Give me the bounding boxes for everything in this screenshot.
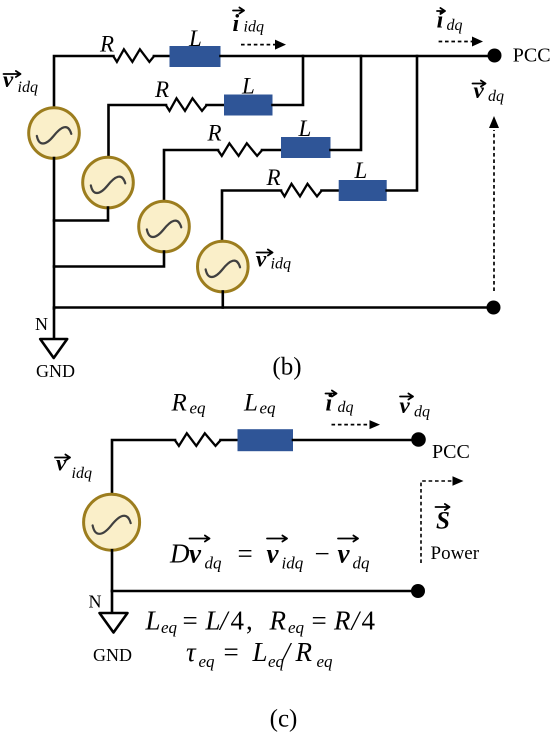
svg-text:L: L: [188, 26, 202, 51]
svg-text:idq: idq: [282, 554, 304, 573]
wire branch4 left: [222, 191, 281, 242]
label v_dq (c): [400, 393, 431, 421]
svg-text:v: v: [3, 67, 14, 92]
ground GND (b): [40, 339, 67, 358]
svg-text:v: v: [400, 393, 411, 418]
svg-text:4: 4: [362, 606, 376, 636]
svg-text:dq: dq: [353, 554, 371, 573]
svg-text:idq: idq: [18, 79, 38, 96]
svg-text:/: /: [218, 606, 230, 636]
svg-text:dq: dq: [205, 554, 223, 573]
svg-text:R: R: [333, 606, 351, 636]
svg-text:R: R: [99, 31, 114, 56]
svg-text:D: D: [169, 539, 190, 569]
label Req: [171, 390, 207, 418]
svg-text:−: −: [315, 539, 330, 569]
svg-text:idq: idq: [72, 465, 92, 482]
svg-text:eq: eq: [317, 652, 334, 671]
svg-text:i: i: [326, 391, 333, 417]
svg-text:S: S: [436, 508, 450, 535]
wire Req to Leq: [221, 439, 238, 442]
label v_idq (c): [55, 451, 92, 483]
wire V1 bottom to N rail: [53, 158, 56, 309]
svg-text:PCC: PCC: [432, 441, 470, 463]
resistor R2: [166, 98, 207, 111]
svg-text:GND: GND: [93, 645, 132, 665]
svg-text:i: i: [437, 8, 444, 34]
svg-text:R: R: [154, 77, 169, 102]
resistor R3: [218, 143, 262, 156]
wire L3 to top rail: [331, 56, 362, 150]
label v_idq source 1: [3, 67, 38, 96]
svg-text:GND: GND: [36, 361, 75, 381]
inductor L3: [281, 137, 331, 158]
node bottom right (c): [411, 584, 425, 598]
wire L1 to PCC: [221, 55, 490, 58]
current arrow i_dq (b): [439, 37, 483, 47]
wire branch3 left: [164, 150, 218, 202]
svg-text:dq: dq: [414, 404, 430, 421]
current arrow i_idq: [241, 40, 286, 50]
equation Leq = L/4, Req = R/4: [145, 606, 376, 638]
node PCC (b): [488, 49, 502, 63]
wire V3 bottom: [54, 252, 164, 267]
source Veq: [84, 494, 140, 550]
svg-text:=: =: [312, 606, 327, 636]
svg-text:eq: eq: [260, 399, 277, 418]
wire neutral rail (c): [112, 590, 411, 593]
svg-text:=: =: [238, 539, 253, 569]
current arrow i_dq (c): [332, 420, 381, 429]
wire N to ground: [53, 309, 56, 339]
svg-text:(c): (c): [270, 706, 298, 733]
svg-text:Power: Power: [431, 543, 480, 564]
inductor L2: [224, 95, 273, 116]
wire R4 to L4: [322, 189, 339, 192]
equation tau_eq = Leq/Req: [186, 637, 333, 671]
source V4: [198, 241, 249, 292]
svg-text:dq: dq: [338, 399, 354, 416]
wire V2 bottom: [54, 208, 108, 221]
voltage arrow v_dq (b): [489, 116, 499, 291]
wire V4 bottom: [222, 292, 225, 308]
label v_dq (b): [473, 78, 505, 105]
resistor R1: [113, 49, 153, 62]
svg-text:L: L: [241, 74, 255, 99]
svg-text:eq: eq: [190, 399, 207, 418]
wire branch2 left: [109, 105, 167, 158]
wire R1 to L1: [154, 55, 170, 58]
label i_idq: [233, 8, 264, 38]
svg-text:4: 4: [231, 606, 245, 636]
source V1: [29, 108, 80, 159]
node PCC (c): [411, 432, 426, 447]
svg-text:v: v: [474, 78, 485, 103]
svg-text:eq: eq: [288, 618, 305, 637]
svg-text:idq: idq: [244, 18, 264, 35]
label S: [436, 504, 450, 535]
svg-text:eq: eq: [161, 618, 178, 637]
wire branch1 left lead: [54, 56, 113, 108]
resistor Req: [175, 433, 221, 446]
svg-text:,: ,: [246, 606, 253, 636]
wire (c) source to Req: [112, 440, 175, 495]
source V3: [139, 201, 190, 252]
label i_dq (b): [437, 8, 463, 35]
svg-text:R: R: [266, 165, 281, 190]
label v_idq source 4: [256, 247, 291, 273]
svg-text:/: /: [281, 637, 293, 667]
wire neutral rail: [54, 306, 488, 309]
inductor L4: [339, 180, 387, 201]
wire R2 to L2: [207, 104, 225, 107]
svg-text:L: L: [298, 116, 312, 141]
svg-text:L: L: [252, 637, 268, 667]
label Leq: [243, 390, 276, 418]
svg-text:L: L: [354, 158, 368, 183]
svg-text:idq: idq: [271, 256, 291, 273]
svg-text:i: i: [233, 11, 240, 37]
svg-text:R: R: [207, 121, 222, 146]
svg-text:τ: τ: [186, 637, 197, 667]
wire R3 to L3: [262, 149, 281, 152]
svg-text:v: v: [56, 451, 67, 476]
svg-text:v: v: [189, 539, 202, 569]
wire L2 to top rail: [273, 56, 304, 105]
svg-text:PCC: PCC: [513, 45, 550, 67]
svg-text:R: R: [295, 637, 313, 667]
svg-text:R: R: [171, 390, 187, 417]
svg-text:eq: eq: [199, 652, 216, 671]
svg-text:N: N: [35, 314, 48, 334]
svg-text:dq: dq: [488, 88, 504, 105]
wire N stub (c): [111, 591, 114, 613]
resistor R4: [281, 184, 322, 197]
node bottom right (b): [487, 301, 501, 315]
svg-text:L: L: [145, 606, 161, 636]
label i_dq (c): [326, 391, 354, 417]
equation D v_dq = v_idq minus v_dq: [169, 536, 370, 573]
svg-text:R: R: [269, 606, 287, 636]
ground GND (c): [100, 613, 128, 633]
svg-text:v: v: [256, 247, 267, 272]
wire L4 to top rail: [387, 56, 417, 191]
power arrow S: [421, 476, 464, 563]
wire Leq to PCC (c): [293, 439, 412, 442]
svg-text:L: L: [243, 390, 258, 417]
svg-text:/: /: [350, 606, 362, 636]
svg-text:=: =: [183, 606, 198, 636]
wire Veq bottom: [111, 550, 114, 591]
source V2: [83, 157, 134, 208]
inductor L1: [170, 46, 221, 67]
svg-text:v: v: [267, 539, 280, 569]
svg-text:=: =: [224, 637, 239, 667]
svg-text:(b): (b): [272, 354, 301, 381]
svg-text:v: v: [338, 539, 351, 569]
svg-text:L: L: [205, 606, 221, 636]
svg-text:dq: dq: [447, 17, 463, 34]
svg-text:N: N: [89, 592, 102, 612]
inductor Leq: [238, 429, 294, 451]
